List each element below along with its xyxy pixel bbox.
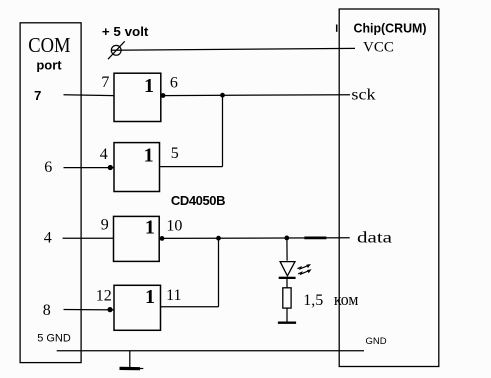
svg-text:1: 1 [145,286,155,308]
wire U1D out [161,306,219,308]
svg-text:GND: GND [366,336,387,347]
junction dot U1C output [160,236,165,241]
wire COM6 to U1B in [64,167,115,169]
buffer U1D box [114,285,161,330]
thick overdrawn segment on data wire [304,236,326,239]
svg-text:data: data [357,229,392,246]
svg-text:11: 11 [166,287,181,304]
svg-text:Chip(CRUM): Chip(CRUM) [354,21,427,35]
junction dot U1D input [107,307,112,312]
svg-text:7: 7 [101,74,109,91]
wire vertical data to U1D out [218,238,220,307]
svg-text:7: 7 [34,88,41,103]
wire U1B out [160,166,223,168]
svg-text:+ 5 volt: + 5 volt [102,24,149,39]
svg-text:5 GND: 5 GND [37,333,71,345]
COM port connector box J1 [20,23,81,363]
resistor R1 body [283,288,291,308]
svg-text:CD4050B: CD4050B [171,193,225,208]
junction dot U1A output [161,93,166,98]
buffer U1A box [114,73,161,121]
GND bus wire [57,350,364,352]
buffer U1C box [114,216,160,261]
wire +5V to VCC [111,48,355,50]
junction dot data-LED node [284,236,289,241]
svg-text:6: 6 [170,74,178,91]
svg-text:1: 1 [144,145,154,167]
wire vertical sck to U1B out [222,95,224,166]
wire COM8 to U1D in [64,309,115,311]
resistor bottom terminal bar [278,322,296,324]
svg-text:6: 6 [44,159,52,176]
wire U1A out to sck [161,94,350,97]
LED emission arrow 1 [298,266,308,269]
artifact tick left of chip top [336,25,338,32]
wire U1C out to data [159,237,350,240]
ground symbol bar tail [140,368,143,370]
wire LED to resistor [286,279,288,288]
svg-text:ком: ком [334,290,359,309]
svg-text:1: 1 [145,216,155,238]
svg-text:1: 1 [144,75,154,97]
junction dot U1B input [108,165,113,170]
LED D1 triangle [280,262,295,276]
wire COM4 to U1C in [63,237,114,239]
svg-text:COM: COM [28,33,70,57]
svg-text:10: 10 [166,217,182,234]
svg-text:12: 12 [96,287,112,304]
svg-text:4: 4 [44,229,52,246]
svg-text:sck: sck [351,86,375,103]
LED D1 cathode bar [279,277,296,279]
junction dot data-U1D node [216,236,221,241]
ground symbol stub [129,351,131,367]
junction dot sck node [220,93,225,98]
svg-text:1,5: 1,5 [303,292,323,309]
wire resistor to terminal [286,308,288,322]
Chip(CRUM) box U2 [339,9,439,367]
svg-text:8: 8 [43,302,51,319]
LED emission arrow 2 [298,271,308,274]
buffer U1B box [114,143,160,192]
svg-text:port: port [36,57,62,72]
power connector symbol (circle with slash) [111,45,121,55]
LED D1 anode wire [286,238,288,261]
svg-text:9: 9 [101,216,109,233]
ground symbol bar [120,367,141,371]
svg-text:5: 5 [171,145,179,162]
svg-text:VCC: VCC [363,40,394,56]
wire COM7 to U1A in [64,94,115,97]
svg-text:4: 4 [100,146,108,163]
